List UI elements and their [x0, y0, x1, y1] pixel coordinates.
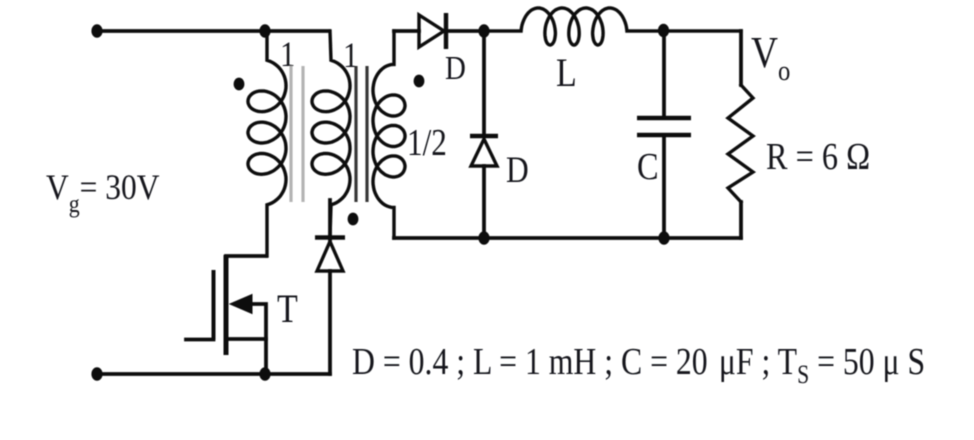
- MOSFET T gate plate: [212, 270, 216, 340]
- capacitor C bottom plate: [637, 133, 691, 138]
- node dot freewheel bottom: [478, 231, 489, 245]
- polarity dot secondary: [414, 75, 425, 88]
- svg-text:T: T: [277, 288, 298, 332]
- wire D1 cathode to node: [446, 29, 484, 33]
- label D series diode: [445, 49, 466, 87]
- svg-text:Vo: Vo: [751, 28, 790, 86]
- wire capacitor branch upper: [662, 31, 666, 116]
- svg-text:D: D: [506, 150, 529, 191]
- polarity dot reset winding: [348, 213, 359, 226]
- MOSFET T channel bar: [224, 255, 229, 355]
- svg-text:Vg= 30V: Vg= 30V: [46, 168, 160, 218]
- MOSFET T drain tab: [226, 254, 266, 258]
- MOSFET T gate lead: [186, 338, 214, 342]
- svg-text:D: D: [445, 49, 466, 87]
- diode D3 cathode bar: [315, 235, 345, 239]
- svg-text:1: 1: [280, 35, 295, 75]
- node dot primary top: [259, 24, 270, 38]
- MOSFET T source tab: [226, 337, 266, 341]
- node dot capacitor top: [658, 24, 669, 38]
- node dot D1 cathode: [478, 24, 489, 38]
- svg-text:1/2: 1/2: [407, 121, 447, 164]
- wire top rail: [97, 29, 329, 33]
- wire load branch bottom: [739, 202, 743, 238]
- transformer secondary winding n=1/2: [373, 31, 405, 238]
- transformer primary winding n=1: [248, 31, 286, 256]
- wire freewheel diode branch upper: [482, 31, 486, 135]
- wire reset diode branch: [328, 200, 332, 374]
- terminal dot input bottom: [91, 367, 102, 381]
- capacitor C top plate: [637, 116, 691, 121]
- node dot capacitor bottom: [658, 231, 669, 245]
- label Vo: [751, 28, 790, 86]
- label Vg = 30V: [46, 168, 160, 218]
- node dot source: [259, 367, 270, 381]
- svg-text:R = 6 Ω: R = 6 Ω: [766, 136, 870, 178]
- MOSFET T body arrow wire and source lead: [248, 304, 266, 374]
- transformer core pair 1: [291, 66, 303, 202]
- label R = 6 ohm: [766, 136, 870, 178]
- wire secondary top to diode D1: [394, 29, 419, 33]
- diode D1 series triangle: [419, 15, 444, 47]
- diode D2 cathode bar: [470, 134, 498, 138]
- MOSFET T body arrowhead: [230, 295, 252, 314]
- diode D1 cathode bar: [444, 13, 448, 49]
- svg-text:D = 0.4 ; L = 1 mH ; C = 20 μF: D = 0.4 ; L = 1 mH ; C = 20 μF ; TS = 50…: [352, 340, 925, 389]
- terminal dot input top: [91, 24, 102, 38]
- label parameters: [352, 340, 925, 389]
- label D freewheel diode: [506, 150, 529, 191]
- wire output bottom rail: [394, 236, 741, 240]
- diode D2 freewheel triangle: [471, 139, 497, 166]
- svg-text:L: L: [556, 52, 577, 96]
- diode D3 reset triangle: [317, 242, 343, 272]
- label L: [556, 52, 577, 96]
- svg-text:C: C: [637, 146, 659, 188]
- wire input bottom rail: [96, 372, 330, 376]
- transformer reset winding n=1: [312, 31, 350, 237]
- label T transistor: [277, 288, 298, 332]
- label C: [637, 146, 659, 188]
- resistor R zigzag: [728, 85, 753, 202]
- transformer core pair 2: [356, 66, 367, 202]
- wire freewheel diode branch lower: [482, 166, 486, 238]
- polarity dot primary: [234, 78, 245, 91]
- label turns 1 primary: [280, 35, 295, 75]
- inductor L: [484, 8, 741, 45]
- label turns 1/2 secondary: [407, 121, 447, 164]
- wire load branch top: [739, 31, 743, 85]
- label turns 1 reset: [343, 36, 358, 76]
- svg-text:1: 1: [343, 36, 358, 76]
- wire capacitor branch lower: [662, 137, 666, 238]
